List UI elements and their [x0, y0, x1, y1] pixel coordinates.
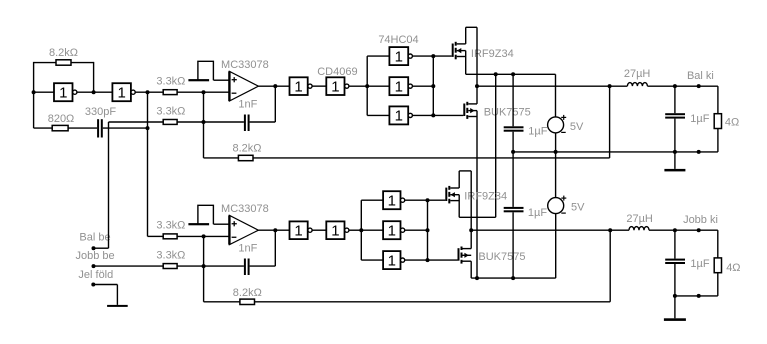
wire: +5V to source top lead	[555, 74, 557, 117]
wire: filter cap top lead	[674, 86, 676, 113]
svg-text:MC33078: MC33078	[221, 203, 269, 215]
wire: Bal be stub	[94, 247, 109, 249]
svg-text:1nF: 1nF	[238, 243, 257, 255]
svg-text:4Ω: 4Ω	[725, 116, 739, 128]
wire: branch to buffer 2	[367, 85, 389, 87]
wire: feedback row right	[253, 157, 610, 159]
wire: filter ground row lower	[675, 295, 718, 297]
wire: P-FET drain up	[465, 27, 467, 44]
terminal Jel fold	[91, 283, 95, 287]
wire: Jel fold stub	[93, 284, 117, 286]
wire: buffer 1 to gate bus	[412, 55, 433, 57]
svg-text:Bal ki: Bal ki	[687, 70, 714, 82]
svg-text:330pF: 330pF	[85, 106, 116, 118]
wire: 5V col to lower source	[555, 152, 557, 198]
wire: CD4069 B out to branch node lower	[349, 229, 361, 231]
wire: feedback row right lower	[255, 301, 611, 303]
svg-text:Jobb ki: Jobb ki	[683, 214, 718, 226]
svg-text:1: 1	[388, 252, 396, 269]
terminal Jobb be	[92, 264, 96, 268]
junction filter cap top	[673, 84, 677, 88]
svg-text:27µH: 27µH	[624, 68, 651, 80]
voltage source 5V (lower)	[548, 196, 567, 214]
wire: gate wire to IRF9Z34 (lower)	[428, 199, 446, 201]
svg-text:1: 1	[395, 48, 403, 65]
wire: gate wire to IRF9Z34 (upper)	[433, 55, 451, 57]
buffer 6 output bubble	[401, 258, 405, 262]
wire: half-bridge output row	[477, 85, 627, 87]
voltage source 5V (upper)	[548, 115, 567, 133]
svg-text:3.3kΩ: 3.3kΩ	[156, 250, 185, 262]
wire: output corner down to 4 ohm	[717, 86, 719, 114]
wire: op-amp output lower	[258, 229, 289, 231]
wire: node B vertical	[93, 62, 95, 92]
wire: 5V lower minus lead	[555, 214, 557, 279]
svg-text:1: 1	[117, 85, 125, 102]
svg-text:BUK7575: BUK7575	[478, 251, 525, 263]
wire: 1nF row right lower	[250, 265, 276, 267]
terminal Bal ki -	[697, 150, 701, 154]
transistor Q3 IRF9Z34 P-MOSFET (lower)	[445, 186, 459, 204]
buffer inverter 74HC04 #3 (upper)	[389, 106, 408, 124]
op-amp U2 MC33078 (lower)	[229, 215, 258, 244]
resistor 3.3k (square wave input, lower)	[163, 234, 177, 239]
buffer inverter 74HC04 #5 (lower)	[383, 221, 400, 239]
CD4069 A output bubble lower	[308, 228, 312, 232]
svg-text:1: 1	[395, 108, 403, 125]
wire: Jobb be row	[94, 265, 164, 267]
wire: feedback tap vertical lower	[609, 230, 611, 302]
transistor Q4 BUK7575 N-MOSFET (lower)	[458, 247, 472, 264]
svg-text:1: 1	[395, 78, 403, 95]
buffer inverter 74HC04 #4 (lower)	[383, 191, 400, 209]
buffer inverter 74HC04 #1 (upper)	[389, 47, 408, 65]
svg-text:1: 1	[331, 78, 339, 95]
wire: Bal be audio feed row	[109, 121, 164, 123]
wire: inverter 1 out to inverter 2 in	[77, 91, 113, 93]
inverter gate 2 (oscillator)	[112, 83, 130, 101]
terminal Jobb ki -	[697, 294, 701, 298]
svg-text:1µF: 1µF	[690, 258, 709, 270]
resistor 8.2k (feedback, lower)	[240, 299, 255, 304]
junction minus input upper	[202, 90, 206, 94]
svg-text:5V: 5V	[571, 202, 585, 214]
junction node C	[146, 90, 150, 94]
svg-text:1µF: 1µF	[690, 113, 709, 125]
capacitor 1uF (output filter, lower)	[665, 259, 685, 264]
wire: mid-rail to lower cap	[512, 206, 514, 208]
wire: branch to buffer 1	[367, 55, 389, 57]
wire: node A to inverter 1 input	[34, 91, 54, 93]
junction node A	[32, 90, 36, 94]
junction gate bus top lower	[426, 198, 430, 202]
svg-text:27µH: 27µH	[626, 213, 653, 225]
wire: branch to buffer 2 lower	[361, 229, 383, 231]
wire: filter cap bottom lead lower	[674, 264, 676, 296]
wire: lower cap to -5V rail	[512, 212, 514, 278]
inverter CD4069 A (lower)	[290, 221, 308, 239]
svg-text:1µF: 1µF	[528, 207, 547, 219]
wire: branch to buffer 3 lower	[361, 259, 383, 261]
svg-text:MC33078: MC33078	[221, 59, 269, 71]
wire: output corner down to 4 ohm lower	[717, 230, 719, 258]
wire: 3.3k audio to summing node lower	[177, 265, 204, 267]
wire: P-FET drain down to output node lower	[470, 171, 472, 249]
wire: N-FET source down to -5V rail	[476, 111, 478, 279]
terminal Bal be	[92, 246, 96, 250]
svg-text:3.3kΩ: 3.3kΩ	[156, 219, 185, 231]
junction feedback tap	[608, 84, 612, 88]
ground symbol (lower filter)	[664, 296, 686, 321]
resistor 4 ohm load (lower)	[714, 258, 721, 273]
svg-text:Jobb be: Jobb be	[76, 250, 115, 262]
wire: 1nF row left	[204, 121, 244, 123]
svg-text:3.3kΩ: 3.3kΩ	[156, 106, 185, 118]
junction branch node lower	[359, 228, 363, 232]
junction summing node lower	[202, 264, 206, 268]
buffer 3 output bubble	[408, 113, 412, 117]
wire: inductor to output	[647, 85, 718, 87]
wire: 4 ohm bottom lead lower	[717, 273, 719, 296]
CD4069 B output bubble lower	[345, 228, 349, 232]
wire: buffer 6 to gate bus	[405, 259, 428, 261]
wire: P-FET source down to +5V rail	[465, 51, 467, 75]
svg-text:CD4069: CD4069	[317, 66, 357, 78]
wire: gate bus vertical lower	[427, 200, 429, 260]
resistor 3.3k (square wave input, upper)	[163, 90, 177, 95]
wire: gate bus vertical upper	[432, 56, 434, 115]
junction node B	[92, 90, 96, 94]
wire: node C vertical down to lower channel	[147, 92, 149, 236]
wire: mid-rail cap lead upper	[512, 74, 514, 126]
junction decoupling cap top	[511, 72, 515, 76]
svg-text:BUK7575: BUK7575	[484, 107, 531, 119]
wire: gate wire to BUK7575 (lower)	[428, 259, 458, 261]
wire: half-bridge output row lower	[471, 229, 629, 231]
resistor 3.3k (audio input, lower)	[163, 264, 177, 269]
svg-text:8.2kΩ: 8.2kΩ	[233, 287, 262, 299]
wire: mid-rail cap lead lower	[512, 132, 514, 207]
wire: gate wire to BUK7575 (upper)	[433, 114, 463, 116]
inverter CD4069 B (lower)	[326, 221, 344, 239]
junction branch node upper	[365, 84, 369, 88]
wire: branch vertical upper bank	[366, 56, 368, 115]
svg-text:Jel föld: Jel föld	[78, 269, 113, 281]
wire: feedback row left	[204, 157, 239, 159]
svg-text:1: 1	[331, 223, 339, 240]
wire: feedback tap vertical	[609, 86, 611, 158]
wire: 330pF to node C junction	[103, 127, 148, 129]
wire: inverter 2 out to node C	[135, 91, 163, 93]
svg-text:4Ω: 4Ω	[726, 262, 740, 274]
wire: branch vertical lower bank	[360, 200, 362, 260]
wire: 3.3k audio to summing node	[177, 121, 203, 123]
op-amp U1 MC33078 (upper)	[229, 71, 258, 101]
ground symbol (signal ground input)	[107, 285, 128, 307]
capacitor 1uF (output filter, upper)	[665, 113, 685, 118]
wire: P-FET drain top	[466, 26, 477, 28]
wire: node C corner to 3.3k lower	[148, 235, 164, 237]
junction +5V feed	[494, 72, 498, 76]
wire: 4 ohm bottom lead	[717, 129, 719, 152]
wire: buffer 3 to gate bus	[412, 114, 433, 116]
wire: oscillator top row left	[34, 62, 56, 64]
svg-text:1: 1	[294, 78, 302, 95]
svg-text:1: 1	[294, 223, 302, 240]
junction feedback tap lower	[608, 228, 612, 232]
wire: op-amp output vertical to 1nF	[274, 86, 276, 122]
capacitor 330pF	[97, 119, 103, 137]
wire: P-FET drain up lower	[458, 171, 460, 188]
inverter 2 output bubble	[131, 90, 135, 94]
CD4069 A output bubble	[308, 84, 312, 88]
junction filter ground lower	[673, 294, 677, 298]
buffer inverter 74HC04 #6 (lower)	[383, 251, 400, 269]
svg-text:74HC04: 74HC04	[378, 34, 418, 46]
capacitor 1uF (decoupling, upper)	[504, 126, 524, 131]
junction half-bridge output upper	[475, 84, 479, 88]
junction mid rail / 5V minus	[554, 150, 558, 154]
wire: oscillator top row right	[71, 62, 94, 64]
junction gate bus mid lower	[426, 228, 430, 232]
wire: summing node vertical lower	[203, 236, 205, 301]
terminal Jobb ki +	[697, 228, 701, 232]
wire: pulse symbol to + input	[214, 79, 230, 81]
wire: -5V rail row	[471, 277, 556, 279]
wire: op-amp output	[258, 85, 289, 87]
junction summing node upper	[202, 120, 206, 124]
wire: P-FET drain down to output node	[476, 27, 478, 104]
inductor 27uH (upper)	[627, 83, 647, 87]
svg-text:3.3kΩ: 3.3kΩ	[156, 75, 185, 87]
inverter CD4069 A (upper)	[290, 77, 308, 95]
junction gate bus top	[431, 54, 435, 58]
CD4069 B output bubble	[345, 84, 349, 88]
wire: feedback row left lower	[204, 301, 240, 303]
wire: 5V source minus lead	[555, 133, 557, 152]
wire: +5V distribution vertical	[495, 74, 497, 217]
resistor 8.2k (feedback, upper)	[238, 155, 253, 160]
wire: Bal be vertical to upper channel	[108, 122, 110, 248]
junction filter cap top lower	[673, 228, 677, 232]
svg-text:1: 1	[59, 85, 67, 102]
wire: CD4069 A to B	[312, 85, 326, 87]
buffer 4 output bubble	[401, 198, 405, 202]
wire: inductor to output lower	[649, 229, 718, 231]
wire: oscillator left vertical node A	[33, 62, 35, 128]
junction upper N source at -5V rail	[475, 276, 479, 280]
junction filter ground upper	[673, 150, 677, 154]
junction gate bus bottom lower	[426, 258, 430, 262]
junction op-amp output upper	[273, 84, 277, 88]
wire: buffer 2 to gate bus	[412, 85, 433, 87]
junction half-bridge output lower	[469, 228, 473, 232]
wire: 1nF row right	[250, 121, 276, 123]
pulse reference symbol (lower op-amp + input)	[188, 205, 213, 225]
wire: summing node vertical	[203, 92, 205, 158]
wire: signal ground row	[513, 151, 718, 153]
pulse reference symbol (upper op-amp + input)	[188, 61, 213, 81]
svg-text:8.2kΩ: 8.2kΩ	[232, 143, 261, 155]
buffer inverter 74HC04 #2 (upper)	[389, 77, 408, 95]
wire: buffer 4 to gate bus	[405, 199, 428, 201]
inductor 27uH (lower)	[629, 227, 649, 231]
wire: +5V rail row lower	[459, 216, 496, 218]
junction minus input lower	[202, 234, 206, 238]
svg-text:Bal be: Bal be	[79, 232, 110, 244]
wire: CD4069 B out to branch node	[349, 85, 367, 87]
transistor Q2 BUK7575 N-MOSFET (upper)	[463, 102, 477, 119]
junction mid rail at ground row	[511, 150, 515, 154]
resistor 8.2k ohm (oscillator feedback)	[56, 60, 71, 65]
svg-text:1: 1	[388, 193, 396, 210]
junction lower cap at -5V rail	[511, 276, 515, 280]
svg-text:820Ω: 820Ω	[48, 113, 75, 125]
wire: P-FET drain top lower	[459, 170, 471, 172]
resistor 4 ohm load (upper)	[714, 114, 721, 129]
wire: CD4069 A to B lower	[312, 229, 326, 231]
terminal Bal ki +	[697, 84, 701, 88]
capacitor 1nF (integrator, lower)	[244, 259, 250, 276]
ground symbol (upper filter)	[664, 152, 685, 172]
wire: 820 ohm row left	[34, 127, 53, 129]
resistor 820 ohm	[52, 125, 68, 130]
inverter CD4069 B (upper)	[326, 77, 344, 95]
buffer 5 output bubble	[401, 228, 405, 232]
wire: branch to buffer 1 lower	[361, 199, 383, 201]
wire: filter cap bottom lead	[674, 119, 676, 152]
wire: P-FET source down to +5V rail lower	[458, 195, 460, 218]
junction gate bus bottom	[431, 113, 435, 117]
junction op-amp output lower	[273, 228, 277, 232]
wire: 1nF row left lower	[204, 265, 244, 267]
capacitor 1uF (decoupling, lower)	[504, 207, 524, 212]
inverter gate 1 (oscillator)	[54, 83, 73, 101]
junction 330pF node	[146, 126, 150, 130]
wire: pulse symbol to + input lower	[214, 223, 230, 225]
buffer 2 output bubble	[408, 84, 412, 88]
wire: branch to buffer 3	[367, 114, 389, 116]
svg-text:5V: 5V	[570, 121, 584, 133]
wire: 820 ohm to 330pF cap	[68, 127, 97, 129]
wire: filter cap top lead lower	[674, 230, 676, 258]
wire: 3.3k to op-amp inverting input	[177, 91, 229, 93]
capacitor 1nF (integrator, upper)	[244, 115, 250, 132]
svg-text:8.2kΩ: 8.2kΩ	[49, 47, 78, 59]
wire: 3.3k to op-amp inverting input lower	[177, 235, 229, 237]
wire: +5V rail row	[466, 73, 556, 75]
svg-text:1µF: 1µF	[528, 126, 547, 138]
svg-text:1nF: 1nF	[238, 99, 257, 111]
transistor Q1 IRF9Z34 P-MOSFET (upper)	[452, 42, 466, 60]
resistor 3.3k (audio input, upper)	[163, 120, 177, 125]
buffer 1 output bubble	[408, 54, 412, 58]
inverter 1 output bubble	[73, 90, 77, 94]
wire: N-FET source down to -5V rail lower	[470, 261, 472, 278]
svg-text:1: 1	[388, 223, 396, 240]
wire: op-amp output vertical to 1nF lower	[274, 230, 276, 266]
junction gate bus mid	[431, 84, 435, 88]
wire: buffer 5 to gate bus	[405, 229, 428, 231]
